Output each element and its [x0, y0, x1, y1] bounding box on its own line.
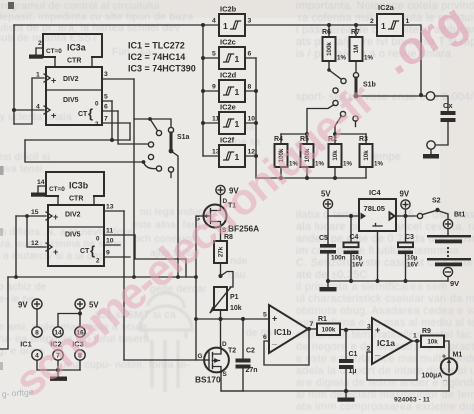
svg-text:_: _: [374, 347, 381, 357]
wire R8 bottom: [220, 263, 222, 276]
svg-text:9: 9: [212, 84, 216, 91]
svg-text:do achiz de: do achiz de: [0, 282, 47, 293]
ground symbol (supply pins): [50, 377, 67, 381]
wire: IC4 ground lead: [377, 231, 379, 281]
wire: tap to S1a arm: [25, 140, 143, 162]
wire P1 bottom: [220, 310, 222, 319]
svg-text:IC1a: IC1a: [377, 338, 395, 348]
svg-text:DIV2: DIV2: [63, 76, 79, 83]
S1b contact 3: [333, 100, 338, 105]
wire: signal into pin 15: [16, 215, 46, 217]
wire: S1b common to Cx / IC2a: [356, 95, 425, 97]
wire: S1a pole down: [171, 151, 178, 277]
svg-text:1%: 1%: [364, 55, 373, 62]
wire: pin3 to S1a: [102, 78, 134, 80]
svg-text:78L05: 78L05: [364, 204, 386, 213]
S1a arm lower: [142, 160, 146, 164]
wire: [36, 309, 38, 327]
svg-text:2: 2: [96, 258, 100, 265]
wire to ground: [430, 149, 432, 154]
svg-text:Cx: Cx: [443, 101, 453, 110]
supply pins: 9V terminal: [18, 299, 42, 310]
supply pins: 5V terminal: [75, 299, 99, 310]
svg-text:2: 2: [370, 18, 374, 25]
S1b contact 2: [333, 88, 338, 93]
svg-text:0: 0: [96, 236, 100, 243]
svg-text:6: 6: [104, 104, 108, 111]
svg-text:{: {: [90, 243, 95, 258]
wire: battery minus to rail: [447, 277, 449, 281]
switch S1a top wire: [133, 79, 135, 277]
svg-text:IC2d: IC2d: [220, 71, 237, 80]
wire: into pin 12: [27, 216, 46, 247]
svg-text:13: 13: [212, 149, 220, 156]
wire: S1b contact3 to R4/R5: [307, 105, 334, 134]
input wedge pin 4: [44, 106, 50, 114]
wire: gate input stubs: [203, 58, 219, 156]
resistor R9: [421, 328, 444, 347]
svg-text:2: 2: [95, 121, 99, 128]
svg-text:M1: M1: [453, 352, 463, 359]
regulator IC4 78L05: [359, 188, 396, 231]
svg-text:IC2f: IC2f: [220, 136, 235, 145]
svg-text:IC2 = 74HC14: IC2 = 74HC14: [128, 52, 185, 62]
svg-text:DIV5: DIV5: [65, 232, 81, 239]
wire T1 source to R8: [220, 227, 222, 241]
wire: T1 gate down to T2 gate: [196, 216, 204, 360]
svg-text:1: 1: [235, 119, 240, 129]
potentiometer P1: [209, 287, 242, 314]
svg-text:IC3b: IC3b: [69, 181, 89, 191]
wire C4 to rail: [350, 254, 352, 281]
wire: IC1a output: [412, 340, 421, 342]
supply 5V terminal: [321, 190, 333, 209]
resistor R4: [274, 136, 298, 168]
S1b contact 5: [353, 116, 358, 121]
svg-text:il principta a slemtficarea: il principta a slemtficarea sem: [296, 281, 448, 293]
svg-text:R1: R1: [318, 316, 327, 323]
wire: output 5 down: [111, 101, 113, 140]
resistor R2: [328, 136, 352, 168]
wire Cx bottom: [436, 122, 449, 145]
meter M1: [422, 352, 463, 383]
svg-text:100µA: 100µA: [422, 373, 443, 380]
wire: [79, 309, 81, 327]
wire: wiper tie loop: [221, 272, 234, 288]
svg-text:10: 10: [248, 116, 256, 123]
svg-text:2: 2: [38, 40, 42, 47]
svg-text:nde: nde: [230, 256, 248, 267]
transistor T1 BF256A: [195, 198, 259, 234]
svg-text:IC4: IC4: [369, 188, 382, 197]
svg-text:5: 5: [104, 94, 108, 101]
counter IC3b divider body: [48, 205, 104, 266]
svg-text:1%: 1%: [343, 161, 352, 168]
svg-text:IC3a: IC3a: [67, 43, 86, 53]
svg-text:DIV5: DIV5: [63, 97, 79, 104]
svg-text:IC3 = 74HCT390: IC3 = 74HCT390: [128, 64, 196, 74]
svg-text:IC1 = TLC272: IC1 = TLC272: [128, 41, 185, 51]
svg-text:10µ: 10µ: [352, 255, 363, 262]
svg-text:dova tensi: dova tensi: [0, 164, 43, 175]
counter IC3a divider body: [46, 67, 102, 128]
capacitor C3 (electrolytic): [398, 216, 419, 269]
svg-text:C2: C2: [246, 348, 255, 355]
svg-text:7: 7: [310, 321, 314, 328]
wire: input bus of IC2c-IC2f: [202, 25, 204, 156]
svg-text:C4: C4: [350, 234, 359, 241]
svg-text:_: _: [271, 336, 278, 346]
wire: IC1b output: [308, 328, 317, 330]
svg-text:CT=0: CT=0: [49, 186, 65, 193]
svg-text:1M: 1M: [353, 45, 360, 54]
wire: P1 to T2 drain: [220, 319, 222, 347]
svg-text:+: +: [51, 76, 56, 86]
resistor R5: [300, 136, 324, 168]
svg-text:9: 9: [106, 250, 110, 257]
resistor R8: [214, 234, 233, 263]
svg-text:9V: 9V: [400, 190, 410, 199]
svg-text:IC2a: IC2a: [378, 3, 395, 12]
svg-text:ul characteristick cseluiar v: ul characteristick cseluiar vari da masu…: [296, 293, 474, 305]
svg-text:3: 3: [367, 324, 371, 331]
svg-text:ate de ±0,25C: ate de ±0,25C: [296, 269, 368, 281]
svg-text:ata imm comproasarea exdeme: ata imm comproasarea exdeme dupa cum: [296, 401, 474, 413]
svg-text:S2: S2: [432, 198, 441, 205]
svg-text:D: D: [222, 341, 227, 348]
ground symbol (power): [327, 281, 329, 287]
wire: exits left edge: [0, 277, 8, 349]
S1a contact 5: [168, 167, 173, 172]
svg-text:16V: 16V: [352, 262, 364, 269]
svg-text:1: 1: [223, 21, 228, 31]
svg-text:10µ: 10µ: [407, 255, 418, 262]
svg-text:DIV2: DIV2: [65, 212, 81, 219]
battery Bt1: [427, 212, 471, 289]
wire: C1 to rail: [345, 369, 347, 391]
power ground rail: [328, 280, 448, 282]
svg-text:S: S: [223, 371, 228, 378]
wire: pin13 to T2 gate: [123, 211, 125, 360]
svg-text:8: 8: [248, 84, 252, 91]
wire: output 7 into node: [129, 123, 131, 140]
wires: resistor bottoms: [281, 167, 366, 178]
ground (IC3a reset): [29, 55, 43, 59]
svg-text:IC1: IC1: [20, 340, 32, 349]
svg-text:8: 8: [35, 329, 39, 336]
counter IC3a control block: [38, 34, 102, 67]
svg-text:11: 11: [106, 228, 113, 235]
svg-text:1%: 1%: [337, 55, 346, 62]
S1a contact 1: [156, 130, 161, 135]
svg-text:IC2b: IC2b: [220, 5, 237, 14]
op-amp IC1b: [263, 305, 314, 353]
svg-text:1: 1: [235, 54, 240, 64]
op-amp IC1a: [367, 318, 418, 364]
svg-text:13: 13: [106, 204, 114, 211]
wire 9V to T1: [220, 195, 222, 205]
scan mark top-left: [8, 2, 14, 9]
wire: gate line: [124, 359, 204, 361]
wire: clock line from IC2b output to counters: [14, 24, 219, 26]
svg-text:T2: T2: [228, 348, 236, 355]
svg-text:G: G: [198, 353, 203, 360]
svg-text:C1: C1: [349, 351, 358, 358]
wire: IC1a feedback: [367, 341, 417, 380]
supply 9V (T1 drain): [216, 185, 239, 195]
svg-text:IC2e: IC2e: [220, 103, 236, 112]
svg-text:P1: P1: [230, 294, 239, 301]
ground symbol (rail): [345, 391, 347, 398]
wire: [79, 360, 81, 370]
svg-text:3: 3: [104, 71, 108, 78]
wire: IC2b input rail to IC2a: [245, 24, 377, 26]
svg-text:+: +: [272, 314, 277, 324]
svg-text:10k: 10k: [363, 150, 370, 161]
wire: IC1b feedback: [264, 329, 309, 365]
switch S1b arm: [329, 70, 341, 79]
svg-text:_: _: [442, 375, 447, 382]
Schmitt inverter IC2e: [212, 103, 255, 135]
analog ground rail: [221, 390, 449, 392]
svg-text:C3: C3: [405, 234, 414, 241]
svg-text:4: 4: [212, 18, 216, 25]
S1b contact 1: [341, 78, 346, 83]
wire: pin11 loop: [135, 235, 186, 277]
svg-text:Bt1: Bt1: [454, 212, 465, 219]
Cx top terminal: [426, 92, 434, 100]
svg-text:7: 7: [104, 116, 108, 123]
supply 9V terminal: [400, 190, 411, 210]
S1a pole: [168, 127, 173, 132]
wire: measurement line to IC1b: [196, 318, 269, 320]
Schmitt inverter IC2c: [212, 38, 252, 70]
svg-text:+: +: [53, 212, 58, 222]
svg-text:100k: 100k: [326, 42, 333, 56]
wire: IC2a output to Cx: [403, 25, 421, 95]
svg-text:ny uclenta totala: ny uclenta totala: [0, 112, 72, 123]
svg-text:14: 14: [37, 179, 45, 186]
svg-text:1%: 1%: [374, 161, 383, 168]
svg-text:5: 5: [263, 312, 267, 319]
capacitor C1: [339, 330, 358, 375]
capacitor C2: [236, 319, 258, 374]
input wedge pin 1: [44, 74, 50, 82]
wire: pin1 feedback: [14, 78, 44, 124]
S1a contact 2: [148, 142, 153, 147]
wire: paralleled output bus: [255, 58, 257, 178]
S1a contact 5 stub: [170, 172, 172, 177]
svg-text:IC2c: IC2c: [220, 38, 236, 47]
wire: CT=0 to ground: [36, 48, 43, 54]
svg-text:100n: 100n: [331, 255, 346, 262]
node: R2-R3 junction: [333, 132, 337, 136]
svg-text:S1a: S1a: [177, 134, 190, 141]
S1b pole: [353, 73, 358, 78]
wire: R9 to meter: [444, 341, 449, 358]
wire 9V down: [405, 209, 407, 216]
svg-text:5: 5: [212, 51, 216, 58]
svg-text:100k: 100k: [322, 327, 336, 334]
ghost of TO-92 transistor drawing (show-through): [140, 293, 192, 392]
wire R6 top: [328, 25, 330, 37]
svg-text:S1b: S1b: [363, 82, 376, 89]
svg-text:924063 - 11: 924063 - 11: [394, 397, 430, 404]
svg-text:15: 15: [31, 209, 39, 216]
S1a contact 4: [156, 166, 161, 171]
IC3 pin 8: [75, 350, 85, 360]
node: R4-R5 junction: [305, 132, 309, 136]
svg-text:27n: 27n: [246, 367, 258, 374]
wire: CT=0 to ground: [38, 186, 46, 192]
svg-text:{: {: [88, 106, 93, 121]
svg-text:+: +: [51, 111, 56, 121]
svg-text:+: +: [53, 247, 58, 257]
svg-text:CT: CT: [78, 111, 88, 118]
svg-text:1: 1: [413, 333, 417, 340]
switch S2: [417, 198, 440, 219]
Schmitt inverter IC2b: [212, 5, 252, 37]
wire: R1 to IC1a: [340, 329, 372, 331]
Schmitt inverter IC2a: [370, 3, 410, 36]
input wedge pin 15: [46, 212, 52, 220]
IC1 pin 8: [32, 327, 42, 337]
svg-text:16V: 16V: [407, 262, 419, 269]
svg-text:1µ: 1µ: [349, 368, 357, 375]
wire 5V down: [327, 209, 329, 216]
ground (Cx): [423, 154, 439, 159]
wire: IC4 output to 9V: [396, 215, 418, 217]
wire: S2 to battery: [438, 211, 449, 220]
capacitor Cx: [441, 101, 456, 122]
svg-text:0: 0: [95, 101, 99, 108]
svg-text:CT: CT: [80, 248, 90, 255]
svg-text:+: +: [375, 325, 380, 335]
resistor R7: [350, 29, 374, 62]
S1a arm upper: [150, 119, 158, 131]
svg-text:10: 10: [106, 238, 114, 245]
svg-text:CTR: CTR: [67, 58, 81, 65]
svg-text:C5: C5: [319, 235, 328, 242]
svg-text:9V: 9V: [450, 279, 459, 288]
wire branch to IC2: [58, 314, 80, 327]
S1a contact 3: [148, 154, 153, 159]
S1b contact 5 stub: [355, 121, 357, 126]
Schmitt inverter IC2f: [212, 136, 255, 168]
wire: 5V rail: [328, 215, 359, 217]
resistor R6: [322, 29, 346, 62]
svg-text:BS170: BS170: [195, 375, 221, 385]
parts list text: [128, 41, 196, 74]
wire: [57, 360, 59, 370]
svg-text:6: 6: [248, 51, 252, 58]
wire: meter to rail: [448, 375, 450, 391]
resistor R3: [359, 136, 383, 168]
svg-text:R6: R6: [322, 29, 331, 36]
wire: gate output stubs: [245, 58, 256, 156]
wire R6 bottom to switch arm: [328, 61, 330, 70]
wire: T2 source to ground rail: [221, 373, 243, 392]
wire: clock into pin 4: [13, 25, 15, 124]
IC1 pin 4: [32, 350, 42, 360]
svg-text:5V: 5V: [321, 190, 331, 199]
svg-text:1: 1: [235, 152, 240, 162]
wire: [37, 360, 80, 370]
svg-text:3: 3: [248, 18, 252, 25]
svg-text:CT=0: CT=0: [46, 48, 62, 55]
svg-text:11: 11: [212, 116, 219, 123]
svg-text:are digiala de fesrm ander: are digiala de fesrm ander e oglindirea: [296, 377, 474, 389]
wire R7 bottom to S1b pole: [355, 61, 357, 72]
wire C3 to rail: [405, 254, 407, 281]
capacitor C5: [319, 216, 346, 262]
svg-text:10k: 10k: [427, 339, 438, 346]
wire: S1b contact4 to R2/R3: [335, 116, 341, 134]
wire R7 top: [355, 25, 357, 37]
svg-text:12: 12: [31, 240, 39, 247]
svg-text:9V: 9V: [18, 301, 28, 310]
wire to ground: [57, 370, 59, 377]
svg-text:10k: 10k: [230, 305, 242, 312]
svg-text:+: +: [442, 354, 446, 361]
ground (IC3b reset): [31, 193, 45, 197]
wire: pin15 feed: [15, 216, 17, 277]
IC2 pin 14: [53, 327, 63, 337]
IC3 pin 16: [75, 327, 85, 337]
Schmitt inverter IC2d: [212, 71, 252, 103]
svg-text:R9: R9: [422, 328, 431, 335]
input wedge pin 12: [46, 243, 52, 251]
counter IC3b control block: [37, 172, 104, 205]
svg-text:12: 12: [248, 149, 256, 156]
wire: divider tap line: [25, 139, 130, 141]
wire: resistor drive rail: [256, 177, 366, 179]
wire: output 6 to S1a contact: [118, 111, 148, 144]
capacitor C4 (electrolytic): [344, 216, 364, 269]
svg-text:R3: R3: [359, 136, 368, 143]
wire C5 to rail: [327, 254, 329, 281]
Cx bottom terminal: [427, 141, 435, 149]
transistor T2 BS170: [195, 341, 236, 385]
wire to Cx: [435, 96, 448, 111]
wire: C2 to rail: [242, 367, 244, 391]
svg-text:CTR: CTR: [69, 196, 83, 203]
svg-text:IC1b: IC1b: [274, 328, 291, 337]
svg-text:1: 1: [235, 87, 240, 97]
resistor R1: [317, 316, 340, 335]
S1b contact 4: [340, 111, 345, 116]
wire: feedback bus: [8, 276, 196, 278]
svg-text:6: 6: [263, 334, 267, 341]
svg-text:1: 1: [381, 21, 386, 31]
IC2 pin 7: [53, 350, 63, 360]
